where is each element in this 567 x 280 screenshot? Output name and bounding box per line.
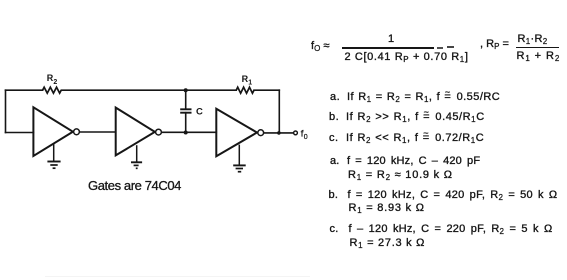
ground for U1 (47, 144, 60, 169)
wire top-left from left rail to R2 (6, 89, 43, 91)
svg-text:2: 2 (53, 79, 57, 86)
wire top-middle R2 to R1 (61, 89, 236, 91)
svg-text:C: C (196, 107, 203, 118)
resistor R2 (43, 87, 62, 93)
wire right rail down to output node (278, 90, 280, 133)
example c line 2 (350, 237, 426, 250)
svg-text:Gates are 74C04: Gates are 74C04 (88, 178, 181, 193)
capacitor C plates (180, 109, 191, 112)
Rp fraction bar (516, 47, 559, 49)
formula fraction bar (342, 47, 434, 49)
condition list a (330, 91, 500, 104)
example a line 1 (330, 155, 480, 167)
wire U1 output to U2 input (80, 131, 116, 133)
capacitor C top lead (185, 90, 187, 109)
example b line 1 (329, 189, 558, 202)
junction node at capacitor top on feedback rail (184, 88, 188, 92)
resistor R1 (236, 87, 254, 93)
formula numerator 1 (388, 33, 394, 45)
svg-text:0: 0 (304, 134, 308, 141)
example c line 1 (330, 223, 553, 236)
formula Rp definition (480, 38, 509, 51)
formula fO (311, 40, 331, 53)
junction node at capacitor bottom on signal path (184, 131, 188, 135)
formula denominator (345, 51, 469, 64)
terminal f0 open circle (294, 131, 298, 135)
junction node at U3 output / right rail (277, 131, 281, 135)
example a line 2 (348, 169, 453, 182)
condition list b (329, 111, 485, 124)
Rp numerator (518, 33, 548, 46)
inverter U3 triangle (216, 109, 257, 157)
inverter U3 output bubble (258, 130, 264, 136)
wire left rail down to inverter 1 input (5, 90, 7, 132)
svg-text:1: 1 (248, 80, 252, 87)
inverter U1 triangle (33, 107, 73, 156)
ground for U2 (131, 145, 142, 168)
faint scan line bottom (45, 276, 310, 277)
Rp denominator (517, 50, 561, 63)
wire into inverter U1 input (6, 132, 34, 134)
wire U3 output to terminal f0 (264, 132, 293, 134)
ground for U3 (233, 145, 246, 172)
example b line 2 (349, 202, 425, 215)
capacitor C bottom lead (185, 113, 187, 133)
inverter U1 output bubble (74, 129, 80, 135)
wire top-right R1 to right rail corner (254, 89, 279, 91)
inverter U2 triangle (116, 108, 155, 156)
condition list c (329, 132, 484, 145)
wire U2 output to U3 input (162, 131, 216, 133)
inverter U2 output bubble (156, 129, 162, 135)
